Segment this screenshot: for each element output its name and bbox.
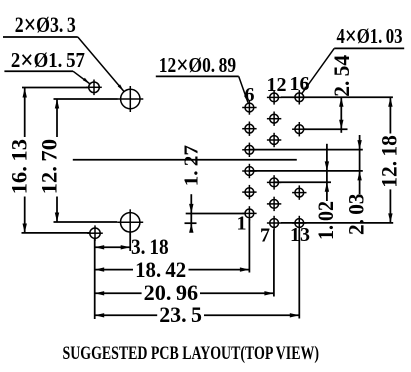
pad pin 10 (270, 136, 279, 145)
ext line below pin13 (298, 230, 300, 319)
ext line below small circle (94, 239, 96, 319)
ext line pin1 row left (186, 213, 245, 215)
underline of label 4xØ1.03 (334, 47, 404, 49)
pad pin 15 (295, 125, 304, 134)
svg-text:12: 12 (267, 74, 287, 96)
arrow dim 3.18 left (95, 245, 105, 249)
dim line 16.13 vertical (24, 88, 26, 137)
arrow dim 1.02 top (325, 161, 329, 171)
pad pin 14 (295, 188, 304, 197)
arrow dim 16.13 top (23, 88, 27, 98)
pads left column pins 1-6 (242, 100, 256, 220)
pad pin 4 (245, 145, 254, 154)
leader line to hole Ø1.57 (73, 71, 90, 84)
pad pin 6 (245, 103, 254, 112)
svg-text:1. 27: 1. 27 (181, 145, 203, 186)
svg-text:2. 03: 2. 03 (344, 194, 369, 236)
arrow dim 12.70 top (55, 99, 59, 109)
dim line 12.70 vertical (56, 99, 58, 137)
ext line pad15 row right (304, 128, 348, 130)
leader arrow hole Ø3.3 (118, 84, 124, 91)
svg-text:3. 18: 3. 18 (131, 234, 169, 259)
ext line pad16 row right (281, 96, 393, 98)
svg-text:16: 16 (290, 73, 310, 95)
leader line to pad pin 6 (239, 76, 248, 102)
dim line 1.27 vertical (190, 194, 192, 232)
leader line to pad pin 16 (302, 48, 334, 93)
pads middle column pins 7-12 (267, 90, 281, 230)
mounting hole bottom big (117, 209, 143, 235)
ext line bottom small circle (22, 232, 90, 234)
arrow dim 12.70 bottom (55, 213, 59, 223)
ext stub pin7 row left (185, 222, 197, 224)
ext line below big circle (129, 232, 131, 251)
svg-text:SUGGESTED PCB LAYOUT(TOP VIEW): SUGGESTED PCB LAYOUT(TOP VIEW) (63, 343, 320, 364)
arrow dim 2.54 bottom (339, 120, 343, 130)
dim line 3.18 (95, 246, 131, 248)
pad pin 7 (270, 219, 279, 228)
arrow dim 12.18 bottom (388, 213, 392, 223)
svg-text:7: 7 (260, 225, 270, 247)
pad pin 8 (270, 200, 279, 209)
arrow dim 18.42 left (95, 267, 105, 271)
pad pin 2 (245, 188, 254, 197)
arrow dim 1.27 top (189, 204, 193, 214)
arrow dim 1.27 bottom (189, 223, 193, 233)
underline of label 12xØ0.89 (156, 75, 239, 77)
dim line 2.03 vertical (359, 135, 361, 194)
mounting hole top small (2xØ1.57) (86, 80, 102, 96)
svg-text:2. 54: 2. 54 (329, 55, 354, 97)
svg-text:6: 6 (245, 84, 255, 106)
svg-text:13: 13 (290, 224, 310, 246)
svg-text:18. 42: 18. 42 (135, 257, 186, 282)
svg-text:12×Ø0. 89: 12×Ø0. 89 (159, 51, 236, 80)
pad pin 9 (270, 178, 279, 187)
svg-text:12. 70: 12. 70 (37, 139, 62, 194)
ext line pin13 row right (281, 222, 393, 224)
dim line 2.54 vertical (340, 97, 342, 133)
arrow dim 16.13 bottom (23, 224, 27, 234)
svg-text:4×Ø1. 03: 4×Ø1. 03 (337, 22, 403, 51)
arrow dim 23.5 left (95, 313, 105, 317)
arrow dim 12.18 top (388, 97, 392, 107)
arrow dim 18.42 right (240, 267, 250, 271)
dim line 12.18 vertical (389, 97, 391, 133)
pads right column pins 13-16 (292, 90, 306, 230)
leader arrow pad pin 6 (244, 95, 248, 103)
arrow dim 2.54 top (339, 97, 343, 107)
ext line top small circle (22, 87, 89, 89)
pad pin 1 (245, 209, 254, 218)
dim line 23.5 (95, 314, 158, 316)
svg-text:2×Ø3. 3: 2×Ø3. 3 (15, 9, 76, 39)
mounting hole bottom small (87, 225, 103, 241)
arrow dim 20.96 left (95, 291, 105, 295)
leader line to hole Ø3.3 (78, 37, 124, 91)
ext line pad3 row right (249, 149, 362, 151)
arrow dim 2.03 top (357, 140, 361, 150)
arrowheads (23, 78, 393, 318)
arrow dim 1.02 bottom (325, 182, 329, 192)
pad pin 12 (270, 93, 279, 102)
svg-text:12. 18: 12. 18 (376, 135, 401, 188)
pad pin 11 (270, 114, 279, 123)
ext line mid pad4 row right (274, 181, 331, 183)
pad pin 16 (295, 93, 304, 102)
underline of label 2xØ1.57 (4, 70, 73, 72)
arrow dim 23.5 right (290, 313, 300, 317)
ext line below pin7 (273, 230, 275, 297)
center line (73, 159, 297, 161)
ext line pad4 row right (249, 170, 362, 172)
arrow dim 3.18 right (121, 245, 131, 249)
dim line 20.96 (95, 292, 142, 294)
svg-text:1. 02: 1. 02 (313, 201, 338, 240)
ext line top big circle (54, 98, 118, 100)
leader arrow pad pin 16 (302, 86, 308, 93)
pad pin 5 (245, 124, 254, 133)
svg-text:1: 1 (237, 213, 247, 235)
leader arrow hole Ø1.57 (83, 78, 90, 84)
pad pin 13 (295, 219, 304, 228)
svg-text:16. 13: 16. 13 (7, 139, 32, 194)
underline of label 2xØ3.3 (3, 36, 78, 38)
arrow dim 2.03 bottom (357, 171, 361, 181)
ext line below pin1 (248, 219, 250, 273)
dim line 18.42 (95, 269, 133, 271)
pad pin 3 (245, 167, 254, 176)
svg-text:23. 5: 23. 5 (159, 302, 202, 327)
arrow dim 20.96 right (264, 291, 274, 295)
mounting hole top big (2xØ3.3) (117, 86, 143, 112)
dim line 1.02 vertical (326, 144, 328, 201)
ext line bottom big circle (54, 221, 118, 223)
svg-text:2×Ø1. 57: 2×Ø1. 57 (11, 46, 85, 75)
